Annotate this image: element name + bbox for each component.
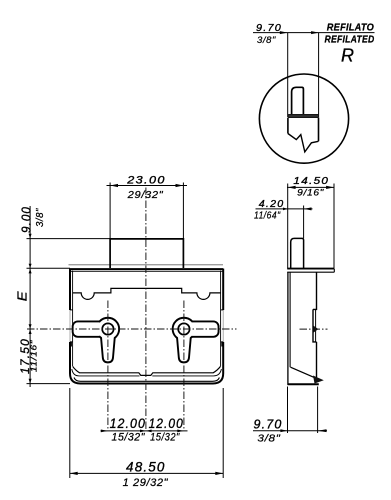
svg-text:REFILATED: REFILATED — [325, 35, 375, 46]
svg-text:12.00: 12.00 — [110, 416, 146, 431]
svg-text:29/32": 29/32" — [127, 190, 164, 201]
tab on top — [110, 239, 183, 268]
ext tab top — [27, 238, 111, 240]
svg-text:12.00: 12.00 — [149, 416, 184, 431]
circle R — [174, 319, 195, 340]
svg-text:15/32": 15/32" — [112, 432, 146, 444]
bottom outer inner-edge thick line — [74, 378, 219, 382]
body outer left edge — [69, 269, 71, 310]
dim 23.00 lines — [107, 185, 188, 187]
bottom 9.70 — [253, 430, 327, 432]
vertical centerline hole R — [183, 301, 185, 431]
svg-text:11/16": 11/16" — [28, 339, 38, 372]
svg-text:9.70: 9.70 — [256, 22, 282, 34]
svg-text:REFILATO: REFILATO — [327, 23, 374, 34]
center vertical — [145, 188, 147, 431]
arrows left chain — [29, 234, 32, 239]
4.20 — [256, 208, 313, 210]
svg-text:3/8": 3/8" — [257, 433, 281, 445]
lower part edges — [287, 118, 289, 134]
inner hole R — [178, 323, 189, 334]
keyhole left : union of circle + wing + tail — [74, 319, 119, 362]
ext body top — [27, 267, 71, 269]
inner hole L — [102, 323, 113, 334]
tail L — [102, 334, 114, 361]
detail tab — [292, 87, 304, 114]
dim 12.00 line — [101, 430, 188, 432]
bottom second line — [72, 369, 222, 376]
ext body bottom — [27, 383, 71, 385]
wing L — [74, 322, 104, 336]
arrows bottom 9.70 — [280, 429, 287, 432]
svg-text:9/16": 9/16" — [297, 188, 324, 198]
side left edge double — [287, 272, 289, 385]
horizontal centerline — [27, 328, 237, 330]
svg-text:9.70: 9.70 — [254, 417, 283, 431]
svg-text:4.20: 4.20 — [259, 198, 285, 210]
svg-text:48.50: 48.50 — [126, 460, 166, 475]
side edge slot ticks left — [70, 310, 73, 342]
svg-text:R: R — [341, 46, 354, 66]
ext verticals into detail — [287, 33, 289, 117]
svg-text:E: E — [14, 291, 29, 301]
side right edge lower — [316, 342, 318, 378]
bottom edge — [288, 383, 319, 385]
arrows 23.00 — [110, 184, 118, 187]
long line — [253, 32, 375, 34]
svg-text:23.00: 23.00 — [126, 174, 166, 186]
body top edge thick — [70, 268, 223, 270]
dim 48.50 line — [70, 472, 223, 474]
14.50 — [287, 186, 335, 188]
side plate right end — [333, 269, 335, 273]
arrows 48.50 — [70, 472, 78, 475]
wing R — [188, 322, 218, 336]
svg-text:3/8": 3/8" — [34, 207, 46, 227]
side view clip centerline — [300, 328, 328, 330]
recess double lines — [313, 309, 317, 342]
detail circle — [259, 74, 348, 163]
clip triangle filled — [313, 326, 318, 333]
arrows 12.00 — [101, 430, 108, 433]
inner bottom line with center notch — [73, 366, 221, 375]
side tab — [291, 238, 304, 268]
body top second line — [70, 270, 223, 272]
ext 48.50 — [69, 388, 71, 478]
tail R — [178, 334, 190, 361]
body top faint upper line — [69, 264, 224, 266]
arrows 14.50 — [288, 186, 296, 189]
side edge slot ticks right — [220, 310, 223, 342]
svg-text:3/8": 3/8" — [257, 35, 276, 46]
svg-text:9.00: 9.00 — [18, 206, 33, 233]
svg-text:1 29/32": 1 29/32" — [123, 477, 169, 489]
left chain vertical — [29, 206, 31, 387]
svg-text:15/32": 15/32" — [150, 432, 180, 444]
centerlines dash-dot — [27, 188, 328, 431]
side plate top — [287, 268, 334, 270]
inner top line with notches and tab jogs — [73, 288, 221, 299]
body inner side lines — [72, 271, 74, 366]
detail bar (trimmed edge) — [289, 114, 319, 117]
side plate bottom — [287, 271, 334, 273]
svg-text:11/64": 11/64" — [254, 210, 281, 221]
arrows 4.20 — [283, 208, 288, 211]
circle L — [98, 319, 119, 340]
diagonal bent tongue — [291, 367, 316, 378]
keyhole right — [174, 319, 218, 362]
break line — [288, 134, 319, 152]
side right edge upper — [313, 272, 317, 309]
vertical centerline hole L — [107, 301, 109, 431]
left edge slot thick segment — [71, 342, 223, 347]
svg-text:14.50: 14.50 — [293, 175, 329, 187]
tongue arrow filled — [313, 376, 324, 384]
